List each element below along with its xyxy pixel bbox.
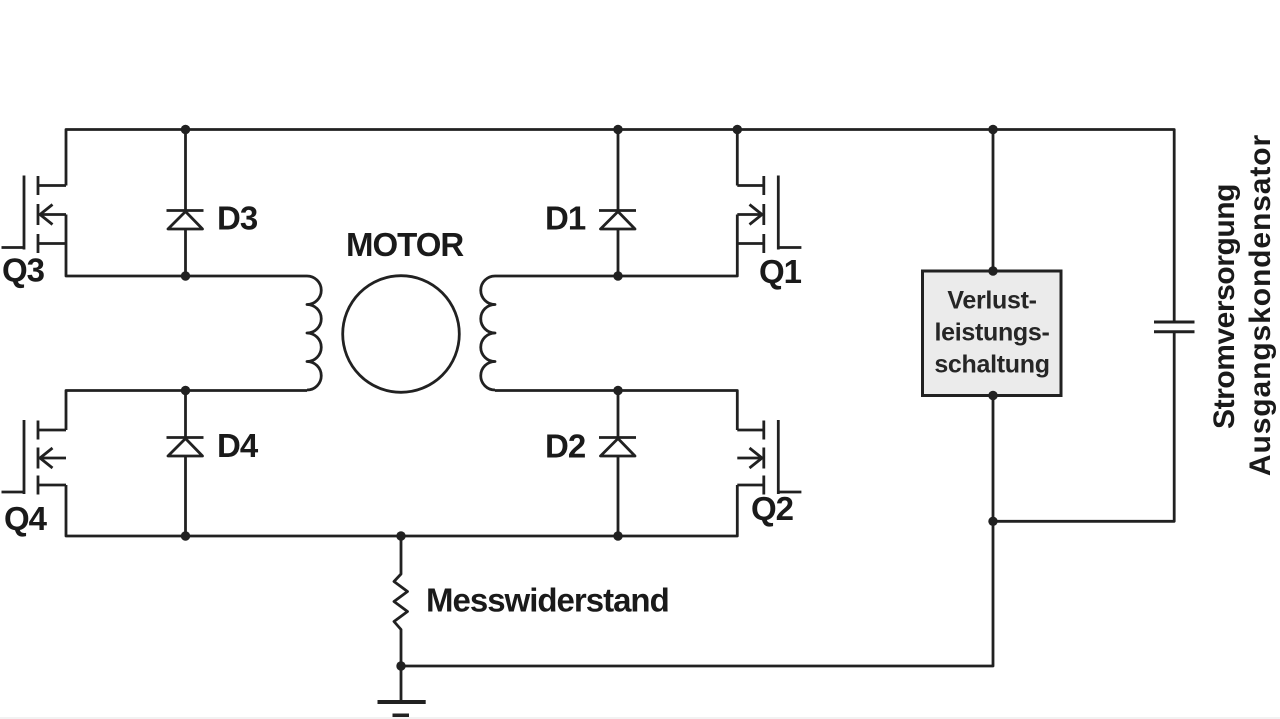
- inductor right motor winding: [481, 276, 495, 390]
- node mid-left rail / D3 anode: [181, 271, 190, 280]
- transistor Q3: [2, 176, 67, 254]
- motor body: [343, 276, 460, 393]
- wire cap bottom rail: [993, 332, 1174, 522]
- wire mid-right rail (right winding to Q1 source / D1 anode): [495, 215, 737, 277]
- wire lower-mid-right rail (right winding to Q2 drain / D2 cathode): [495, 391, 737, 431]
- svg-text:Q1: Q1: [759, 253, 802, 290]
- wire mid-left rail (Q3 source / D3 anode to left winding): [66, 215, 307, 277]
- node mid-right rail / D1 anode: [613, 271, 622, 280]
- node top rail / Q1 drain: [733, 125, 742, 134]
- svg-text:Ausgangskondensator: Ausgangskondensator: [1244, 134, 1277, 476]
- block Verlustleistungsschaltung: [923, 271, 1062, 396]
- node lower-mid-left rail / D4 cathode: [181, 386, 190, 395]
- transistor Q2: [737, 420, 801, 495]
- capacitor Ausgangskondensator: [1154, 322, 1195, 332]
- wire bottom rail (Q4 source to Q2 source): [66, 485, 737, 536]
- wire lower-mid-left rail (Q4 drain / D4 cathode to left winding): [66, 391, 307, 431]
- diode D1: [599, 130, 636, 277]
- node resistor bottom / ground: [396, 661, 405, 670]
- svg-text:Q4: Q4: [4, 500, 48, 537]
- svg-text:D1: D1: [545, 200, 586, 237]
- node bottom rail / D4 anode: [181, 531, 190, 540]
- inductor left motor winding: [307, 276, 321, 390]
- node box top: [988, 266, 997, 275]
- diode D3: [167, 130, 204, 277]
- wire sense line (resistor bottom to Verlust circuit): [401, 521, 993, 666]
- svg-text:Q2: Q2: [751, 490, 794, 527]
- svg-text:Verlust-: Verlust-: [947, 287, 1036, 315]
- svg-text:D2: D2: [545, 428, 586, 465]
- diode D4: [167, 391, 204, 537]
- wire top supply rail: [66, 130, 1174, 323]
- svg-text:Q3: Q3: [2, 252, 45, 289]
- node lower-mid-right rail / D2 cathode: [613, 386, 622, 395]
- svg-text:D3: D3: [217, 200, 258, 237]
- node box bottom: [988, 391, 997, 400]
- node top rail / D3: [181, 125, 190, 134]
- svg-text:leistungs-: leistungs-: [934, 319, 1049, 347]
- svg-text:D4: D4: [217, 427, 259, 464]
- transistor Q4: [2, 420, 67, 495]
- ground: [378, 666, 426, 719]
- node bottom rail / D2 anode: [613, 531, 622, 540]
- svg-text:Messwiderstand: Messwiderstand: [426, 582, 669, 619]
- node cap bottom rail / sense line: [988, 517, 997, 526]
- node bottom rail / resistor top: [396, 531, 405, 540]
- node top rail / D1: [613, 125, 622, 134]
- node top rail / Verlust drop: [988, 125, 997, 134]
- wire Verlust drop (top rail to box): [992, 130, 995, 272]
- resistor Messwiderstand: [394, 536, 408, 666]
- svg-text:Stromversorgung: Stromversorgung: [1208, 184, 1241, 429]
- svg-text:MOTOR: MOTOR: [346, 226, 464, 263]
- transistor Q1: [737, 176, 801, 254]
- wire box bottom to cap-bottom rail: [992, 396, 995, 522]
- diode D2: [599, 391, 636, 537]
- wire Q1 drain riser: [736, 130, 739, 186]
- svg-text:schaltung: schaltung: [934, 351, 1049, 379]
